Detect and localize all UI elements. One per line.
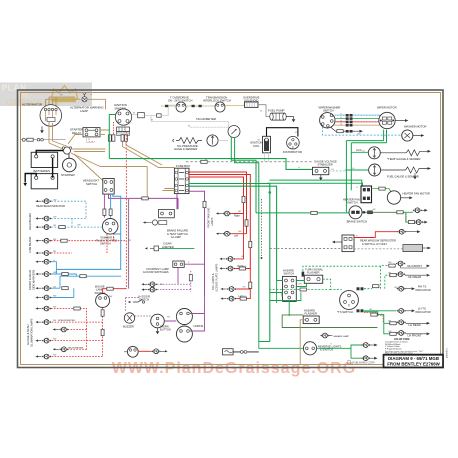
lamp rh ts indicator — [397, 286, 415, 291]
fuel pump — [270, 113, 286, 120]
svg-text:HEAD BEAM INDICATOR: HEAD BEAM INDICATOR — [36, 205, 65, 208]
svg-text:SWITCH: SWITCH — [323, 109, 334, 113]
svg-text:INTERLOCK SWITCH: INTERLOCK SWITCH — [203, 99, 231, 103]
outer frame — [18, 90, 444, 368]
hazard switch — [283, 276, 297, 301]
lamp lh rear — [397, 320, 430, 325]
wire red gauge switch feed — [103, 287, 127, 293]
wire brown warning lamp to ignition — [87, 99, 106, 109]
overdrive solenoid L1 — [245, 102, 259, 107]
lamp reverse lh — [361, 356, 377, 361]
svg-text:LGN: LGN — [298, 284, 303, 286]
svg-text:RW: RW — [53, 339, 56, 341]
lamp illum c — [35, 320, 51, 325]
lamp illum d indented — [53, 327, 69, 332]
svg-text:SOLENOID: SOLENOID — [244, 99, 258, 103]
ground battery — [23, 183, 27, 186]
map light switch — [124, 346, 138, 357]
svg-text:BUTTON: BUTTON — [160, 328, 171, 332]
svg-text:UW: UW — [357, 133, 360, 135]
ignition switch S1 — [115, 109, 131, 125]
wire green main horizontal — [109, 159, 312, 170]
lamp brake lh — [414, 220, 428, 225]
lamp side marker c — [35, 286, 51, 291]
lh door switch — [128, 300, 145, 304]
wire white tachometer feed — [151, 116, 228, 129]
wire blue side markers — [51, 262, 121, 298]
wire yellow overdrive solenoid — [225, 105, 246, 107]
wire red dash ignition short — [112, 122, 114, 135]
wiper washer switch — [320, 113, 335, 128]
door switch lamps — [141, 282, 157, 292]
color code table — [385, 339, 424, 355]
svg-text:GW: GW — [238, 231, 242, 233]
svg-text:BUZZER: BUZZER — [123, 325, 134, 329]
ground alternator — [40, 126, 44, 133]
wire purple dimmer drop — [103, 194, 106, 218]
lamp rh rear — [396, 272, 430, 277]
wire green temp gauge — [351, 150, 368, 153]
svg-text:GW: GW — [388, 331, 392, 333]
wire white overdrive link — [186, 105, 215, 107]
temp gauge — [368, 147, 380, 159]
svg-text:RW: RW — [53, 239, 56, 241]
fuel gauge — [369, 164, 381, 176]
svg-text:LH REAR: LH REAR — [409, 323, 421, 327]
svg-text:*TS SWITCH: *TS SWITCH — [337, 310, 353, 314]
wire red fuse box feeds — [188, 172, 250, 269]
svg-text:STABILIZER: STABILIZER — [318, 163, 333, 167]
wire green reverse feed — [259, 342, 304, 349]
wire black heater motor right — [401, 196, 413, 199]
wire black dash column — [261, 199, 263, 259]
distributor — [287, 136, 300, 149]
svg-text:FLASHER: FLASHER — [305, 312, 317, 316]
wire brown alternator down to solenoid — [46, 117, 67, 149]
svg-text:W: W — [205, 160, 207, 162]
svg-text:SWITCH: SWITCH — [95, 291, 106, 295]
svg-text:printed in...: printed in... — [446, 346, 449, 358]
lamp ts front left — [216, 231, 232, 236]
fuse rh front — [389, 264, 395, 267]
tachometer gauge — [228, 126, 240, 138]
svg-text:LG: LG — [352, 168, 355, 170]
wire green hazard loop — [270, 292, 301, 300]
gauge lamp switch S6 — [96, 294, 110, 308]
wire green brake switch feed — [256, 211, 349, 214]
courtesy lamp switch box — [173, 261, 184, 267]
svg-text:W: W — [258, 140, 260, 142]
wire brown/yellow to warning lamp — [46, 97, 81, 99]
wire black washer fuse row — [331, 128, 363, 133]
svg-text:SWITCH: SWITCH — [284, 272, 295, 276]
svg-text:FUSE BOX: FUSE BOX — [176, 164, 190, 168]
wire blue headlight to beams — [56, 194, 120, 274]
svg-text:DIAGRAM 9 - 69/71 MGB: DIAGRAM 9 - 69/71 MGB — [388, 356, 439, 361]
svg-text:SWITCH: SWITCH — [139, 297, 149, 301]
svg-text:HEATER FAN MOTOR: HEATER FAN MOTOR — [403, 192, 430, 196]
lamp illum b — [35, 306, 51, 311]
wire green heater fan feed — [267, 180, 363, 197]
lamp stop left a — [221, 287, 237, 292]
wire red map light — [138, 350, 151, 352]
svg-text:FROM BENTLEY E2766W: FROM BENTLEY E2766W — [387, 362, 440, 367]
svg-text:HORNS: HORNS — [194, 324, 204, 328]
wire black ground bus — [223, 349, 259, 355]
wire light green stabilizer out — [329, 170, 346, 172]
wire black wiper motor right — [395, 119, 408, 122]
wire green dash flasher feed up — [302, 266, 381, 276]
starter relay K1 — [83, 128, 100, 137]
svg-text:WWW.PlanDeGraissage.ORG: WWW.PlanDeGraissage.ORG — [112, 360, 356, 377]
fuse lh rear — [390, 322, 396, 325]
gauge voltage stabilizer — [313, 167, 329, 180]
lamp lh front — [397, 331, 430, 336]
wire purple dash door — [157, 271, 192, 292]
wire fuel pump feed — [258, 105, 270, 117]
svg-text:SN - 2672 SWITCH: SN - 2672 SWITCH — [168, 99, 192, 103]
svg-text:W: W — [151, 119, 153, 121]
wire green fuse box main — [188, 184, 276, 342]
lamp high beam rh — [35, 225, 51, 230]
svg-text:PLAN: PLAN — [2, 83, 27, 93]
publisher mark — [347, 360, 375, 364]
lamp side marker a — [35, 259, 51, 264]
wire purple horn links — [164, 296, 204, 331]
defroster switch box — [332, 235, 354, 252]
buzzer — [124, 313, 134, 323]
horns — [176, 309, 192, 343]
svg-text:& DOOR SWITCHES: & DOOR SWITCHES — [143, 270, 169, 274]
turn signal switch — [340, 291, 359, 310]
washer motor — [402, 130, 413, 141]
connector pair a — [108, 135, 115, 141]
svg-text:STARTER: STARTER — [61, 173, 76, 177]
svg-text:HIGH BEAMS: HIGH BEAMS — [28, 213, 32, 230]
batteries B1 B2 — [31, 152, 57, 189]
wire green lh ts row — [364, 310, 396, 312]
svg-text:RW: RW — [109, 296, 112, 298]
svg-text:SPEEDOMETER: SPEEDOMETER — [58, 320, 75, 322]
svg-text:GW: GW — [53, 272, 57, 274]
lamp reverse rh — [361, 343, 377, 348]
svg-text:FUEL GAUGE & SENDER: FUEL GAUGE & SENDER — [387, 175, 419, 179]
svg-text:DISTRIBUTOR: DISTRIBUTOR — [283, 150, 302, 154]
svg-text:Right: Right — [234, 215, 240, 218]
svg-text:WASHER MOTOR: WASHER MOTOR — [404, 125, 426, 129]
wire blue dash high beams — [51, 219, 102, 229]
wire white coil leads — [265, 153, 269, 162]
wire brown relay to solenoid — [68, 130, 110, 144]
ignition connector block — [117, 127, 130, 135]
lamp map light — [152, 349, 168, 354]
fuse rh rear — [390, 274, 396, 277]
wire brown hazard to ground — [300, 320, 305, 365]
svg-text:FUEL PUMP: FUEL PUMP — [268, 109, 285, 113]
svg-text:LAMPS: LAMPS — [211, 217, 214, 226]
svg-text:BRAKE SWITCH: BRAKE SWITCH — [347, 219, 368, 223]
starter motor M — [63, 154, 77, 172]
svg-text:SWITCH: SWITCH — [347, 201, 358, 205]
watermark logo box top-left — [0, 83, 92, 108]
wire red wiper — [335, 121, 379, 123]
svg-text:INDICATOR: INDICATOR — [416, 288, 431, 292]
fuse box — [174, 168, 189, 193]
wire green dash flasher to ts — [270, 279, 342, 291]
svg-text:*TEMP GAUGE & SENDER: *TEMP GAUGE & SENDER — [387, 157, 420, 161]
svg-text:WIPER MOTOR: WIPER MOTOR — [377, 106, 397, 110]
svg-text:RW: RW — [53, 355, 56, 357]
lamp rh front — [396, 261, 430, 268]
wire black washer right — [413, 134, 424, 137]
wire brown solenoid trunk right — [71, 149, 106, 181]
wire green ignition down-left — [109, 115, 115, 159]
svg-text:LG: LG — [362, 150, 365, 152]
cigar lighter — [145, 246, 159, 251]
wire green tach down — [231, 137, 259, 342]
svg-text:RW: RW — [53, 296, 56, 298]
brake switch — [349, 206, 362, 219]
wire blue wiper top — [335, 115, 380, 118]
svg-text:TACHOMETER: TACHOMETER — [68, 346, 84, 349]
svg-text:FLASHER: FLASHER — [307, 271, 319, 275]
wire green yellow heater motor — [372, 187, 392, 192]
headlight switch S4 — [103, 179, 114, 195]
wire green red brake lamps — [362, 211, 415, 224]
temp sender — [380, 150, 431, 156]
wire purple fuse box feeds — [177, 191, 206, 296]
oil pressure gauge — [207, 135, 218, 146]
svg-text:W: W — [260, 111, 262, 113]
reverse switch — [303, 342, 316, 355]
wire green wiper — [335, 118, 380, 120]
wire green fuel gauge — [345, 169, 368, 171]
overdrive switch S2 — [176, 102, 186, 112]
svg-text:TACHOMETER: TACHOMETER — [196, 117, 216, 121]
svg-text:RH REAR: RH REAR — [409, 275, 422, 279]
svg-text:LG/G: LG/G — [356, 150, 362, 152]
wire blue dash washer — [323, 127, 402, 136]
svg-text:GW: GW — [394, 287, 398, 289]
svg-text:SWITCH: SWITCH — [115, 107, 126, 111]
wire green red lh rear path — [364, 312, 390, 334]
svg-text:ILLUMINATION LAMPS: ILLUMINATION LAMPS — [29, 318, 33, 347]
horn button — [151, 314, 165, 334]
svg-text:SIDE MARKERS: SIDE MARKERS — [31, 269, 35, 290]
title block — [384, 354, 444, 367]
alternator U1 — [40, 105, 62, 127]
transmission interlock switch S3 — [215, 102, 225, 112]
svg-text:RW: RW — [53, 307, 56, 309]
connector pair b — [121, 135, 128, 141]
svg-text:SWITCH: SWITCH — [100, 242, 111, 246]
svg-text:GW: GW — [242, 266, 246, 268]
lamp defroster — [397, 229, 420, 234]
turn signal flasher — [304, 275, 322, 283]
wire purple brake fail stub — [177, 198, 179, 209]
lamp stop right a — [219, 257, 235, 262]
alternator warning lamp — [82, 93, 93, 102]
wiper connector blocks — [346, 114, 353, 133]
svg-text:UW: UW — [77, 224, 80, 226]
lamp stop right b — [219, 266, 235, 271]
wire gray dashed defroster run — [270, 247, 342, 249]
defroster element — [354, 245, 431, 252]
wire black coil to distributor — [267, 128, 298, 137]
wire purple dash buzzer — [126, 298, 151, 317]
hazard flasher — [303, 316, 319, 324]
heater fan switch — [361, 186, 372, 203]
wire green reverse lamps — [317, 345, 362, 358]
lamp stop left b — [221, 296, 237, 301]
lamp low beam lh — [35, 238, 51, 243]
svg-text:& SWITCH -GT ONLY: & SWITCH -GT ONLY — [362, 242, 388, 246]
svg-text:PUBLISHING CORP: PUBLISHING CORP — [353, 361, 375, 364]
wire purple headlight feed — [109, 194, 179, 200]
svg-text:UW: UW — [53, 217, 56, 219]
wire red white dash trunk — [126, 132, 128, 289]
lamp high beam lh — [35, 216, 51, 221]
svg-text:RW: RW — [53, 320, 56, 322]
svg-text:LH FRONT: LH FRONT — [408, 333, 422, 337]
wire black battery links — [25, 151, 63, 183]
lamp low beam rh — [35, 251, 51, 256]
svg-text:RH FRONT: RH FRONT — [408, 264, 423, 268]
wire red dash low beams — [51, 234, 126, 253]
svg-text:SWITCH: SWITCH — [86, 182, 97, 186]
svg-text:LG: LG — [331, 169, 334, 171]
svg-text:GW: GW — [243, 296, 247, 298]
wire white dash to stabilizer — [186, 160, 313, 163]
svg-text:& LAMP: & LAMP — [171, 235, 181, 239]
lamp illum a — [35, 295, 51, 300]
svg-text:W: W — [188, 126, 190, 128]
ignition coil T1 — [263, 136, 271, 153]
svg-text:BATTERIES: BATTERIES — [34, 169, 50, 173]
svg-text:Left: Left — [234, 235, 238, 238]
lamp head beam indicator — [35, 199, 51, 204]
wire brown alternator output up — [46, 97, 57, 106]
wire blue dash head beam ind row — [51, 201, 86, 218]
inner tan border wire — [21, 93, 441, 365]
svg-text:LOW BEAMS: LOW BEAMS — [28, 237, 32, 253]
fuel sender — [381, 167, 431, 179]
wire red defroster lamp — [354, 232, 397, 238]
fuse lh front — [390, 332, 396, 335]
lamp illum f indented — [53, 347, 69, 352]
wire green dash rh front — [364, 266, 390, 289]
wire brown headlight fuse drop — [100, 167, 147, 197]
dimmer switch S5 — [102, 219, 118, 235]
wire green hazard links — [270, 281, 307, 317]
wire white relay red dash — [87, 137, 96, 143]
lamp lh ts indicator — [397, 308, 415, 313]
wire white ignition right — [132, 105, 177, 118]
svg-text:ALTERNATOR: ALTERNATOR — [22, 103, 43, 107]
wire left accessory fuse line — [21, 138, 66, 141]
wire red stop lamp links — [232, 214, 252, 301]
svg-text:COIL: COIL — [253, 144, 260, 148]
svg-text:GW: GW — [388, 262, 392, 264]
ts connector blocks left — [357, 287, 364, 312]
wire green red hazard run — [282, 315, 377, 328]
wire red dash illumination trunk — [51, 307, 104, 357]
wire brown ignition to fuse box — [123, 142, 175, 168]
wiper motor — [379, 112, 395, 128]
svg-text:LICENSE PLATE LAMPS: LICENSE PLATE LAMPS — [215, 263, 218, 292]
lamp side marker b — [35, 272, 51, 277]
svg-text:WR: WR — [95, 132, 99, 134]
lamp brake rh — [412, 208, 427, 213]
svg-text:HAZARD LAMP: HAZARD LAMP — [334, 335, 350, 338]
starter solenoid — [62, 147, 71, 154]
brake failure switch and lamp — [143, 209, 174, 225]
lamp ts front right — [216, 211, 232, 216]
wire purple courtesy link — [178, 264, 205, 283]
svg-text:GAUGE & DASH: GAUGE & DASH — [26, 324, 30, 345]
wire code labels — [53, 95, 398, 357]
heater fan motor — [387, 191, 400, 204]
wire green cigar lighter — [159, 247, 195, 249]
ground fuel pump — [286, 117, 295, 123]
wire white overdrive feed — [161, 105, 176, 107]
wire white gauge right — [218, 140, 228, 142]
lamp hazard indicator — [320, 333, 349, 338]
svg-text:W: W — [133, 113, 135, 115]
svg-text:INDICATOR: INDICATOR — [416, 310, 431, 314]
svg-text:GAGE & SENDER: GAGE & SENDER — [174, 147, 197, 151]
svg-text:FRONT & REAR: FRONT & REAR — [28, 270, 32, 290]
svg-text:UW: UW — [53, 199, 56, 201]
wire green right bundle — [346, 130, 386, 213]
lamp illum e — [35, 338, 51, 343]
lamp illum g — [35, 354, 51, 359]
oil pressure sender — [173, 138, 203, 144]
wire brown wiper — [334, 124, 380, 126]
svg-text:LAMP: LAMP — [80, 109, 88, 113]
wire brown into fuse box — [162, 189, 174, 191]
